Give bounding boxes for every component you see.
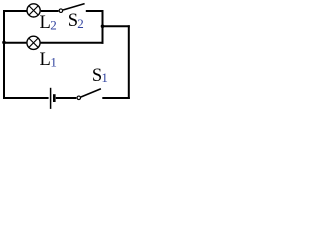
wire: battery to switch S1: [56, 97, 77, 99]
node: junction of branches: [101, 24, 105, 28]
battery negative plate (short thick): [53, 94, 56, 102]
switch S2 blade: [63, 4, 85, 10]
wire: switch S2 right contact to corner: [86, 10, 104, 12]
svg-text:L: L: [40, 50, 51, 70]
wire: bottom rail left portion to battery: [3, 97, 49, 99]
svg-text:2: 2: [77, 16, 84, 31]
wire: left rail to lamp L1: [3, 42, 26, 44]
wire: vertical x=102.5 from top branch down through junction to L1 branch: [102, 10, 104, 44]
lamp L1: [27, 36, 40, 49]
wire: lamp L1 to vertical connector: [41, 42, 104, 44]
switch S1 blade: [81, 89, 101, 97]
wire: junction to right rail: [102, 25, 130, 27]
wire: right rail vertical: [128, 25, 130, 99]
wire: switch S1 right contact to right rail: [102, 97, 130, 99]
svg-text:1: 1: [101, 70, 108, 85]
battery positive plate (long): [50, 88, 52, 109]
lamp L2: [27, 4, 40, 17]
node: left rail junction for L1 branch: [2, 41, 6, 45]
switch S2 pivot: [59, 9, 63, 13]
svg-text:2: 2: [50, 18, 57, 33]
wire: top-left horizontal from left rail to lamp L2: [4, 11, 27, 98]
wire: lamp L2 to switch S2 pivot: [41, 10, 59, 12]
svg-text:L: L: [40, 13, 51, 33]
svg-text:1: 1: [50, 54, 57, 69]
switch S1 pivot: [77, 96, 81, 100]
